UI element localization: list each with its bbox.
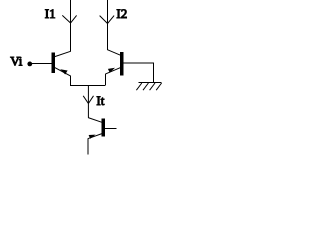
- node dot: input node on Q1 base: [27, 62, 32, 67]
- wire: Q2 base to ground: [124, 62, 154, 64]
- emitter arrowhead Q1 (points at bar): [60, 69, 67, 74]
- transistor Q1 (left PNP) base bar: [51, 52, 55, 73]
- ground symbol (chassis) horizontal bar: [139, 82, 162, 84]
- transistor Q2 (right PNP) base bar: [120, 52, 123, 75]
- wire: I1 branch vertical from top: [70, 0, 72, 52]
- wire: Q3 emitter vertical to bottom edge: [87, 139, 89, 155]
- wire: Q3 collector diagonal from stem: [88, 118, 102, 123]
- wire: Q1 emitter diagonal: [55, 68, 70, 76]
- wire: Q1 base from Vi node: [30, 63, 52, 65]
- wire: Q2 collector diagonal to I2 branch: [107, 50, 120, 56]
- wire: Q3 emitter diagonal: [88, 134, 102, 139]
- ground hatch stroke 3: [150, 83, 155, 90]
- ground hatch stroke 4: [156, 83, 161, 90]
- current arrow I2 (open V): [100, 16, 115, 24]
- svg-text:I2: I2: [116, 6, 127, 21]
- wire: Q1 emitter vertical down to rail: [70, 76, 72, 86]
- emitter arrowhead Q3 (points at bar): [89, 135, 96, 139]
- wire: Q2 emitter vertical down to rail: [105, 74, 107, 86]
- wire: tail current stem: [87, 86, 89, 118]
- svg-text:It: It: [96, 93, 104, 108]
- wire: I2 branch vertical from top: [107, 0, 109, 50]
- current arrow It (open V): [83, 96, 93, 104]
- svg-text:I1: I1: [45, 6, 56, 21]
- svg-text:Vi: Vi: [10, 54, 23, 69]
- wire: Q2 emitter diagonal: [105, 68, 120, 74]
- transistor Q3 (bottom PNP, mirrored) base bar: [102, 118, 106, 136]
- wire: emitter common rail: [70, 85, 105, 87]
- emitter arrowhead Q2 (points at bar): [108, 68, 115, 73]
- wire: Q1 collector diagonal to I1 branch: [55, 51, 71, 56]
- ground hatch stroke 2: [143, 83, 148, 90]
- wire: ground drop vertical: [152, 63, 154, 82]
- current arrow I1 (open V): [62, 15, 76, 23]
- wire: Q3 base stub to the right: [105, 128, 116, 130]
- ground hatch stroke 1: [136, 83, 141, 90]
